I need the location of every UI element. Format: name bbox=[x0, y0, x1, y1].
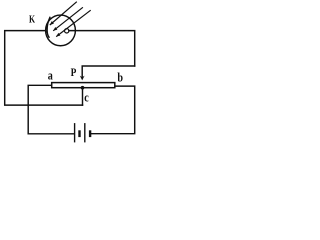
battery cell 2 long plate bbox=[84, 123, 86, 142]
light ray 1 with arrowhead bbox=[50, 2, 77, 25]
svg-text:K: K bbox=[29, 13, 35, 24]
wire: anode lead right to top-right corner, down right rail bbox=[69, 31, 135, 66]
light ray 2 with arrowhead bbox=[53, 7, 83, 31]
anode small circle bbox=[65, 29, 69, 33]
svg-text:c: c bbox=[84, 90, 88, 104]
potentiometer body rectangle bbox=[52, 83, 115, 88]
photocathode arc inside left of tube bbox=[47, 17, 50, 37]
wire: a lead left, down, bottom wire to battery left plate bbox=[28, 85, 74, 134]
battery cell 1 long plate bbox=[74, 123, 76, 142]
svg-text:a: a bbox=[48, 68, 53, 82]
wire: cathode lead left, down left rail, bottom-left rail to c bbox=[5, 31, 83, 106]
svg-text:b: b bbox=[117, 70, 123, 84]
junction dot c on resistor bottom edge bbox=[81, 86, 85, 90]
wiper arrow of P bbox=[80, 76, 85, 81]
phototube K envelope circle bbox=[46, 15, 76, 46]
wire: wiper P top wire from right rail to wiper stem bbox=[82, 66, 135, 78]
light ray 3 with arrowhead bbox=[56, 10, 90, 36]
battery cell 2 short plate bbox=[89, 130, 91, 137]
svg-text:P: P bbox=[71, 66, 77, 79]
wire: b lead right, down right rail, bottom wire to battery right plate bbox=[91, 86, 135, 134]
wire: c tap vertical up to resistor bottom edge bbox=[82, 88, 84, 105]
battery cell 1 short plate bbox=[78, 130, 80, 137]
